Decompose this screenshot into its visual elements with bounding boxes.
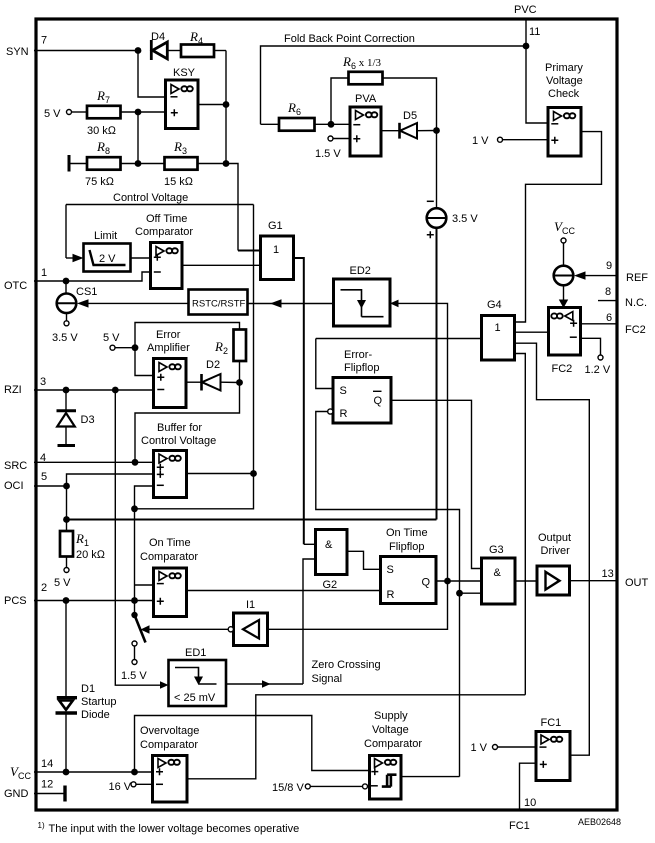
terminal 15/8 V xyxy=(272,782,370,794)
label Vcc top right xyxy=(554,219,575,266)
svg-text:1 V: 1 V xyxy=(471,742,488,754)
svg-text:10: 10 xyxy=(524,797,536,809)
svg-text:1.5 V: 1.5 V xyxy=(121,670,147,682)
svg-text:Zero Crossing: Zero Crossing xyxy=(312,659,381,671)
inverter I1 xyxy=(141,599,268,646)
svg-text:FC2: FC2 xyxy=(552,363,573,375)
comparator KSY xyxy=(166,67,227,129)
pin 14 Vcc label xyxy=(10,758,53,781)
resistor R6 x 1/3 xyxy=(331,54,437,131)
svg-text:6: 6 xyxy=(606,312,612,324)
svg-text:< 25 mV: < 25 mV xyxy=(174,692,216,704)
svg-text:15 kΩ: 15 kΩ xyxy=(164,176,194,188)
svg-text:&: & xyxy=(494,567,502,579)
svg-text:RSTC/RSTF: RSTC/RSTF xyxy=(192,299,246,310)
svg-text:Primary: Primary xyxy=(545,62,583,74)
wire FC1 output to G4 xyxy=(515,343,590,755)
pin 12 GND label xyxy=(4,779,53,801)
resistor R8 xyxy=(85,139,121,188)
label Zero Crossing Signal xyxy=(312,659,381,685)
node Vcc/supply junction xyxy=(131,769,138,776)
wire pin 10 to FC1 plus xyxy=(520,763,537,810)
pin 9 REF label xyxy=(606,260,648,284)
svg-text:Error-: Error- xyxy=(344,349,372,361)
svg-text:OUT: OUT xyxy=(625,577,649,589)
wire long line OCI node to 3.5V rail xyxy=(67,519,437,521)
svg-text:OTC: OTC xyxy=(4,280,27,292)
block Primary Voltage Check xyxy=(545,62,583,156)
footnote xyxy=(38,821,300,835)
svg-text:PCS: PCS xyxy=(4,595,27,607)
node 5V/R2 junction xyxy=(132,344,139,351)
wire OCI down to R1 node xyxy=(66,486,68,531)
node SYN/D4 junction xyxy=(135,47,142,54)
wire Qbar output to G3 input 1 xyxy=(391,400,482,568)
wire overvoltage output to Vcc line xyxy=(187,695,525,779)
wire PCS pin to on time comparator plus xyxy=(34,600,154,602)
wire bus down to buffer output (control voltage feed) xyxy=(253,205,255,474)
output driver block xyxy=(537,532,571,595)
svg-text:75 kΩ: 75 kΩ xyxy=(85,176,115,188)
svg-text:G1: G1 xyxy=(268,220,283,232)
wire OTC pin to off time comparator minus xyxy=(34,272,151,281)
wire R8 to R3 xyxy=(121,163,165,165)
svg-text:D1: D1 xyxy=(81,683,95,695)
svg-text:30 kΩ: 30 kΩ xyxy=(87,125,117,137)
svg-text:Fold Back Point Correction: Fold Back Point Correction xyxy=(284,33,415,45)
svg-text:D3: D3 xyxy=(81,414,95,426)
wire R7 to KSY plus input xyxy=(121,111,166,113)
svg-text:PVC: PVC xyxy=(514,4,537,16)
svg-text:REF: REF xyxy=(626,272,648,284)
wire control voltage bus xyxy=(66,204,254,206)
svg-text:G2: G2 xyxy=(323,579,338,591)
wire R2/D2 junction to SRC node xyxy=(135,383,240,463)
svg-text:ED1: ED1 xyxy=(185,647,206,659)
resistor R7 xyxy=(87,88,121,137)
wire R4/KSY/R3 vertical bus xyxy=(225,51,227,164)
svg-text:Buffer for: Buffer for xyxy=(157,422,202,434)
terminal 1V FC1 xyxy=(471,742,537,754)
node OCI junction xyxy=(63,483,70,490)
svg-text:Q: Q xyxy=(422,577,431,589)
svg-text:5: 5 xyxy=(41,471,47,483)
node R3 output junction xyxy=(223,160,230,167)
wire zero crossing to G2 input 2 xyxy=(303,559,316,684)
svg-text:Amplifier: Amplifier xyxy=(147,342,190,354)
svg-text:15/8 V: 15/8 V xyxy=(272,782,304,794)
svg-text:Error: Error xyxy=(156,329,181,341)
svg-text:AEB02648: AEB02648 xyxy=(578,817,621,827)
gate G3 xyxy=(482,544,538,604)
gate G1 xyxy=(261,220,304,544)
node R6/R6x13 junction xyxy=(328,121,335,128)
svg-text:5 V: 5 V xyxy=(103,332,120,344)
block Limit xyxy=(84,230,151,272)
node PVC/foldback junction xyxy=(523,43,530,50)
svg-text:SRC: SRC xyxy=(4,460,27,472)
svg-text:GND: GND xyxy=(4,788,29,800)
svg-text:Signal: Signal xyxy=(312,673,343,685)
svg-text:Check: Check xyxy=(548,88,580,100)
wire branch to on time comparator minus xyxy=(135,584,154,586)
pin 13 OUT wire xyxy=(570,568,649,589)
svg-text:KSY: KSY xyxy=(173,67,196,79)
svg-text:1: 1 xyxy=(41,267,47,279)
svg-text:12: 12 xyxy=(41,779,53,791)
wire current source to FC2 top xyxy=(559,285,568,308)
svg-text:Startup: Startup xyxy=(81,696,116,708)
svg-text:Voltage: Voltage xyxy=(372,724,409,736)
svg-text:PVA: PVA xyxy=(355,93,377,105)
svg-text:FC1: FC1 xyxy=(541,717,562,729)
node R7/KSY plus junction xyxy=(135,109,142,116)
svg-text:Limit: Limit xyxy=(94,230,117,242)
svg-text:8: 8 xyxy=(605,286,611,298)
node buffer output junction xyxy=(250,470,257,477)
wire SYN junction to KSY minus input xyxy=(138,51,166,98)
svg-text:13: 13 xyxy=(602,568,614,580)
flipflop On Time Flipflop xyxy=(381,527,482,604)
svg-text:G4: G4 xyxy=(487,299,502,311)
gate G2 xyxy=(304,530,381,592)
wire RZI to ED1 input xyxy=(115,390,160,685)
wire 5V junction to error amp plus xyxy=(135,348,154,376)
wire 3.5V / G4 long line xyxy=(316,338,482,340)
pin 1 OTC label xyxy=(4,267,47,292)
wire RZI pin to error amp minus xyxy=(34,389,154,391)
pin 4 SRC label xyxy=(4,452,46,472)
block On Time Comparator xyxy=(140,537,381,617)
svg-text:2: 2 xyxy=(41,582,47,594)
wire 5V junction to R2 top xyxy=(135,323,240,348)
gate G4 xyxy=(482,299,515,360)
wire OCI to buffer input 2 xyxy=(67,474,154,486)
pin 11 PVC label xyxy=(514,4,540,38)
block Overvoltage Comparator xyxy=(140,725,199,802)
svg-text:Flipflop: Flipflop xyxy=(389,541,424,553)
svg-text:D4: D4 xyxy=(151,31,165,43)
resistor R6 xyxy=(261,100,351,131)
svg-text:5 V: 5 V xyxy=(44,108,61,120)
svg-text:9: 9 xyxy=(606,260,612,272)
node RZI/D3 junction xyxy=(63,387,70,394)
wire Q down to I1 input xyxy=(268,581,448,629)
node RZI/ED1 junction xyxy=(112,387,119,394)
svg-text:Output: Output xyxy=(538,532,571,544)
pin 8 N.C. stub xyxy=(598,286,647,309)
svg-text:SYN: SYN xyxy=(6,46,29,58)
terminal 1V primary voltage check xyxy=(472,135,548,147)
wire 3.5V source down to OCI line xyxy=(436,228,438,520)
svg-text:Comparator: Comparator xyxy=(140,739,198,751)
comparator PVA xyxy=(350,93,399,156)
pin 10 FC1 label xyxy=(509,797,536,832)
node PCS/switch junction xyxy=(131,597,138,604)
svg-text:S: S xyxy=(387,564,394,576)
wire R input from supply comparator xyxy=(316,412,460,777)
block RSTC/RSTF xyxy=(189,290,248,315)
terminal 1.2V at FC2 minus xyxy=(581,338,611,376)
wire primary voltage check output to G4 xyxy=(515,132,602,322)
resistor R3 xyxy=(164,139,226,188)
svg-text:16 V: 16 V xyxy=(109,781,132,793)
node SRC junction xyxy=(132,459,139,466)
svg-text:&: & xyxy=(325,539,333,551)
svg-text:The input with the lower volta: The input with the lower voltage becomes… xyxy=(49,823,300,835)
svg-text:ED2: ED2 xyxy=(350,265,371,277)
svg-text:1: 1 xyxy=(273,244,279,256)
svg-text:1.2 V: 1.2 V xyxy=(585,364,611,376)
current source REF xyxy=(554,266,617,286)
amplifier Error Amplifier xyxy=(147,329,201,408)
svg-text:Comparator: Comparator xyxy=(135,226,193,238)
wire RSTC to ED2 output with arrow xyxy=(248,299,334,307)
svg-text:3.5 V: 3.5 V xyxy=(452,213,478,225)
wire feedback node down to PCS xyxy=(134,509,136,601)
svg-text:Voltage: Voltage xyxy=(546,75,583,87)
diode D4 xyxy=(151,31,181,60)
wire PVC pin to primary voltage check minus xyxy=(526,19,548,123)
wire OCI pin to junction xyxy=(34,485,67,487)
ground stub at R8 xyxy=(69,155,87,172)
wire FC2 output to G4 xyxy=(515,331,549,333)
block Supply Voltage Comparator xyxy=(364,710,460,799)
svg-text:Q: Q xyxy=(374,395,383,407)
svg-text:N.C.: N.C. xyxy=(625,297,647,309)
wire bus to limit arrow xyxy=(65,205,67,259)
wire R7 junction down to R8 junction xyxy=(137,112,139,164)
svg-text:Comparator: Comparator xyxy=(364,738,422,750)
wire ED1 output zero crossing signal xyxy=(226,680,303,688)
svg-text:Diode: Diode xyxy=(81,709,110,721)
wire G4 to FC1 plus / pin 10 xyxy=(515,354,526,695)
pin 6 FC2 wire xyxy=(581,312,646,336)
flipflop Error-Flipflop xyxy=(328,349,391,423)
comparator FC2 xyxy=(549,308,581,376)
diode D3 xyxy=(57,390,95,446)
svg-text:3: 3 xyxy=(40,376,46,388)
diode D2 xyxy=(202,359,240,391)
pin 3 RZI label xyxy=(4,376,46,396)
resistor R4 xyxy=(181,29,226,57)
node OTC junction xyxy=(63,278,70,285)
current source CS1 xyxy=(52,281,189,344)
svg-text:2 V: 2 V xyxy=(99,253,116,265)
svg-text:R6 x 1/3: R6 x 1/3 xyxy=(342,54,382,71)
svg-text:Flipflop: Flipflop xyxy=(344,362,379,374)
pin 5 OCI label xyxy=(4,471,47,492)
buffer for control voltage block xyxy=(154,451,254,498)
resistor R1 xyxy=(54,531,106,589)
svg-text:Supply: Supply xyxy=(374,710,408,722)
terminal 16V xyxy=(109,781,153,793)
wire Vcc to supply voltage comparator plus xyxy=(135,716,370,773)
svg-text:Overvoltage: Overvoltage xyxy=(140,725,199,737)
block ED2 xyxy=(334,265,391,326)
svg-text:14: 14 xyxy=(41,758,53,770)
svg-text:R: R xyxy=(387,589,395,601)
svg-text:G3: G3 xyxy=(489,544,504,556)
wire Q to ED2 input xyxy=(399,303,448,581)
wire Vcc pin to overvoltage comparator xyxy=(34,771,153,773)
diode D5 xyxy=(400,110,437,139)
svg-text:RZI: RZI xyxy=(4,384,22,396)
svg-text:1): 1) xyxy=(38,821,45,830)
svg-text:D5: D5 xyxy=(403,110,417,122)
svg-text:D2: D2 xyxy=(206,359,220,371)
svg-text:1: 1 xyxy=(495,322,501,334)
node R2/D2 junction xyxy=(236,379,243,386)
terminal 1.5V PVA xyxy=(315,136,350,160)
label Buffer for Control Voltage xyxy=(141,422,216,447)
svg-text:On Time: On Time xyxy=(149,537,191,549)
svg-text:1.5 V: 1.5 V xyxy=(315,148,341,160)
block ED1 xyxy=(169,647,227,706)
node feedback junction xyxy=(131,505,138,512)
node KSY output junction xyxy=(223,101,230,108)
terminal 5V error amplifier xyxy=(103,332,135,350)
svg-text:On Time: On Time xyxy=(386,527,428,539)
wire SYN pin to D4 junction xyxy=(34,50,138,52)
svg-text:FC1: FC1 xyxy=(509,820,530,832)
wire SRC pin to buffer input 1 xyxy=(34,461,154,463)
pin 2 PCS label xyxy=(4,582,47,607)
switch at PCS node xyxy=(121,601,147,683)
wire feedback to buffer minus xyxy=(135,486,154,509)
node PCS/D1 junction xyxy=(63,597,70,604)
svg-text:Control Voltage: Control Voltage xyxy=(141,435,216,447)
svg-text:Driver: Driver xyxy=(541,545,571,557)
svg-text:I1: I1 xyxy=(246,599,255,611)
svg-text:3.5 V: 3.5 V xyxy=(52,332,78,344)
ground stub GND xyxy=(34,786,65,802)
node Vcc/D1 junction xyxy=(63,769,70,776)
svg-text:7: 7 xyxy=(41,35,47,47)
block Off Time Comparator xyxy=(135,213,261,289)
svg-text:S: S xyxy=(340,385,347,397)
svg-text:11: 11 xyxy=(529,26,540,38)
svg-text:Off Time: Off Time xyxy=(146,213,187,225)
pin 7 SYN label xyxy=(6,35,47,59)
svg-text:Control Voltage: Control Voltage xyxy=(113,192,188,204)
svg-text:OCI: OCI xyxy=(4,480,24,492)
source 3.5V xyxy=(427,131,479,239)
wire R3 junction to G1 input 1 xyxy=(226,164,238,251)
diode D1 startup diode xyxy=(56,601,117,773)
node Q output junction xyxy=(444,578,451,585)
wire branch to G3 input 3 xyxy=(460,592,482,594)
svg-text:CS1: CS1 xyxy=(76,286,97,298)
svg-text:20 kΩ: 20 kΩ xyxy=(76,549,106,561)
svg-text:FC2: FC2 xyxy=(625,324,646,336)
node supply line to G3 junction xyxy=(456,590,463,597)
wire S input from 3.5V rail line xyxy=(316,339,333,389)
svg-text:5 V: 5 V xyxy=(54,577,71,589)
node D5/R6x13 junction xyxy=(433,127,440,134)
wire fold back point correction line xyxy=(261,46,527,124)
svg-text:R: R xyxy=(340,408,348,420)
node OCI/R1 junction xyxy=(63,516,70,523)
svg-text:1 V: 1 V xyxy=(472,135,489,147)
terminal 5V top left xyxy=(44,108,87,120)
resistor R2 xyxy=(214,330,246,383)
wire buffer feedback loop xyxy=(135,474,254,509)
node R8/R7 junction xyxy=(135,160,142,167)
svg-text:Comparator: Comparator xyxy=(140,551,198,563)
comparator FC1 xyxy=(536,717,570,781)
